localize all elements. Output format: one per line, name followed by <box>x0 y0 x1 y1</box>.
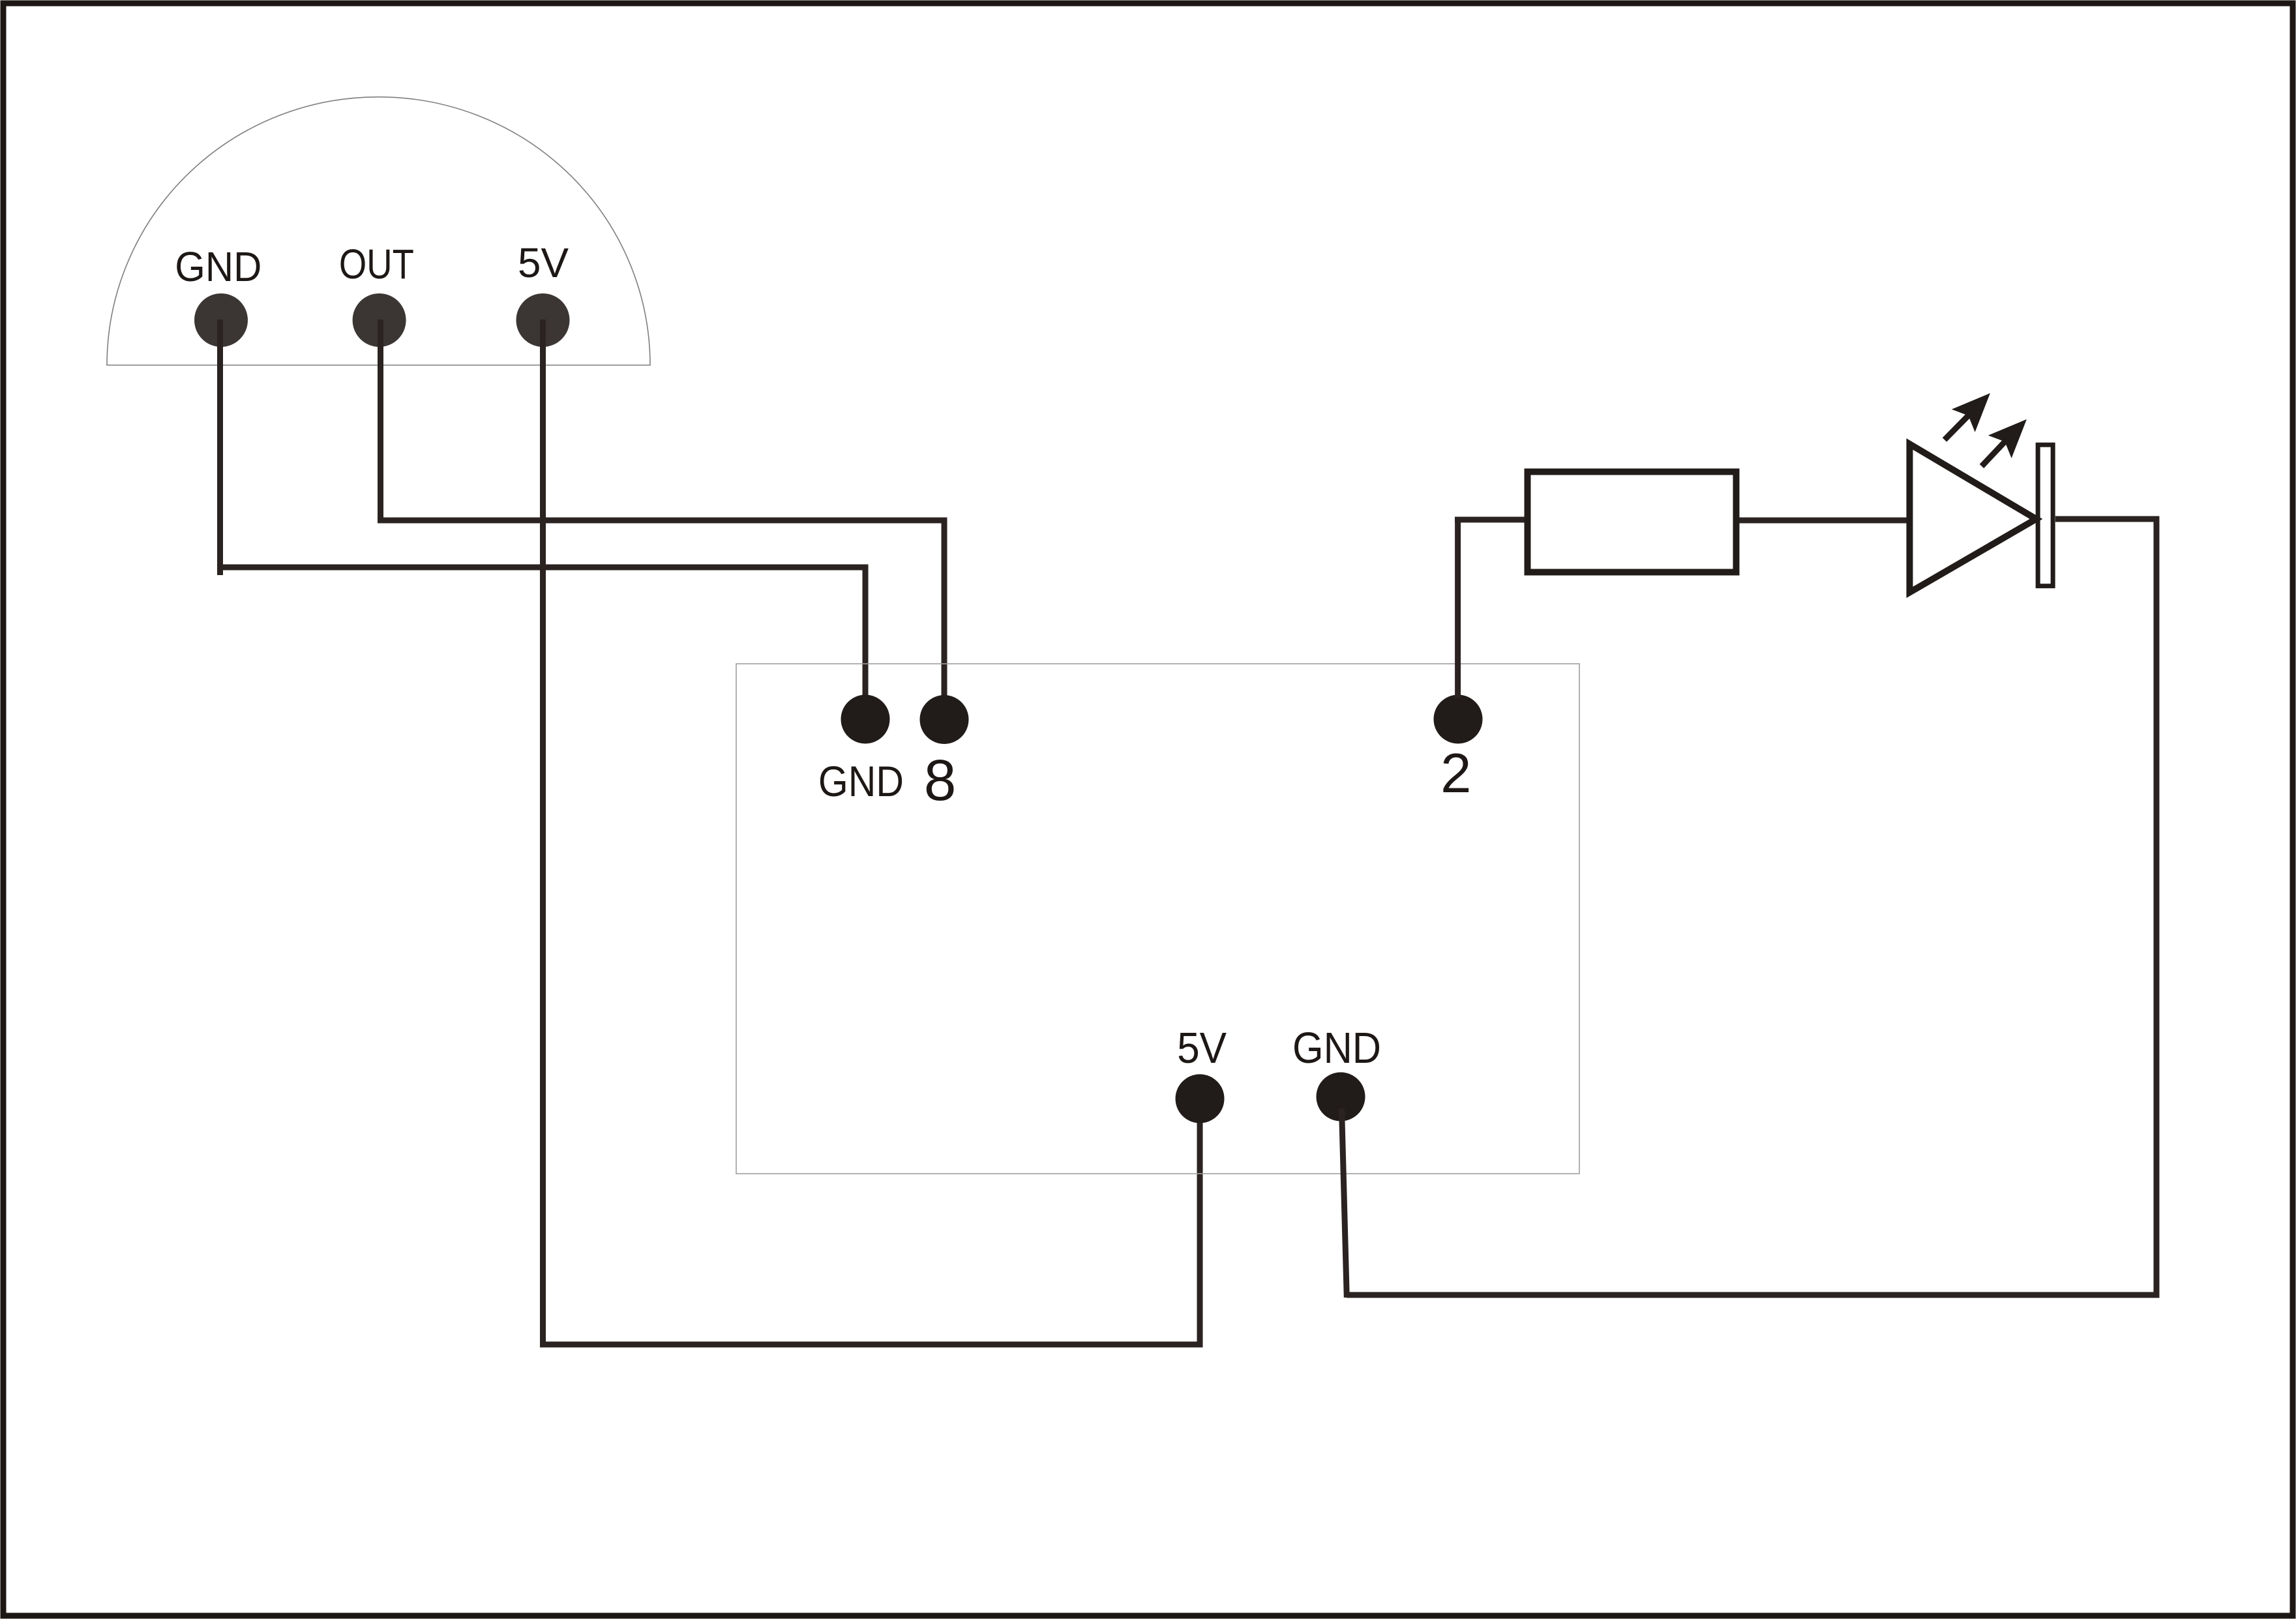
LED light arrow 2 head <box>1988 419 2027 458</box>
wire down into board pin 8 <box>942 518 947 698</box>
svg-text:5V: 5V <box>1177 1024 1227 1073</box>
board pin dot GND (bottom) <box>1317 1073 1365 1121</box>
wire up into board 5V pin <box>1197 1103 1203 1348</box>
board pin dot 5V (bottom) <box>1176 1075 1225 1123</box>
wire LED cathode right <box>2055 516 2160 522</box>
sensor pin dot OUT <box>353 293 406 347</box>
svg-text:GND: GND <box>1292 1024 1381 1073</box>
svg-text:GND: GND <box>818 757 904 805</box>
board pin dot 2 <box>1434 695 1483 744</box>
LED D1 cathode bar <box>2038 445 2053 586</box>
LED light arrow 1 head <box>1952 393 1990 432</box>
wire slant into board GND bottom pin <box>1342 1108 1347 1298</box>
svg-text:GND: GND <box>175 243 261 290</box>
wire down right side <box>2154 516 2160 1298</box>
resistor R1 <box>1528 472 1737 572</box>
sensor pin dot 5V <box>516 293 570 347</box>
svg-text:2: 2 <box>1440 743 1471 805</box>
board pin dot GND (top) <box>841 695 890 744</box>
wire down into board GND pin <box>863 565 869 698</box>
wire sensor GND down <box>217 319 223 575</box>
wire 5V bottom horizontal <box>540 1342 1203 1348</box>
sensor pin dot GND <box>194 293 248 347</box>
wire sensor OUT horizontal <box>378 518 947 524</box>
LED D1 triangle (anode) <box>1910 444 2036 593</box>
wire board pin 2 up <box>1455 517 1461 698</box>
PIR sensor dome body <box>107 97 650 365</box>
svg-text:8: 8 <box>924 747 957 812</box>
wire sensor OUT down <box>378 319 383 524</box>
svg-text:OUT: OUT <box>339 241 414 288</box>
wire pin 2 to resistor <box>1455 517 1525 523</box>
svg-text:5V: 5V <box>518 239 569 286</box>
LED light arrow 2 shaft <box>1982 440 2006 466</box>
wire sensor 5V down <box>540 319 546 1348</box>
microcontroller board outline <box>736 664 1579 1174</box>
board pin dot 8 <box>920 695 969 744</box>
wire sensor GND horizontal <box>217 565 869 571</box>
wire ground return bottom <box>1347 1292 2160 1298</box>
wire resistor to LED <box>1740 518 1911 524</box>
LED light arrow 1 shaft <box>1945 414 1970 439</box>
